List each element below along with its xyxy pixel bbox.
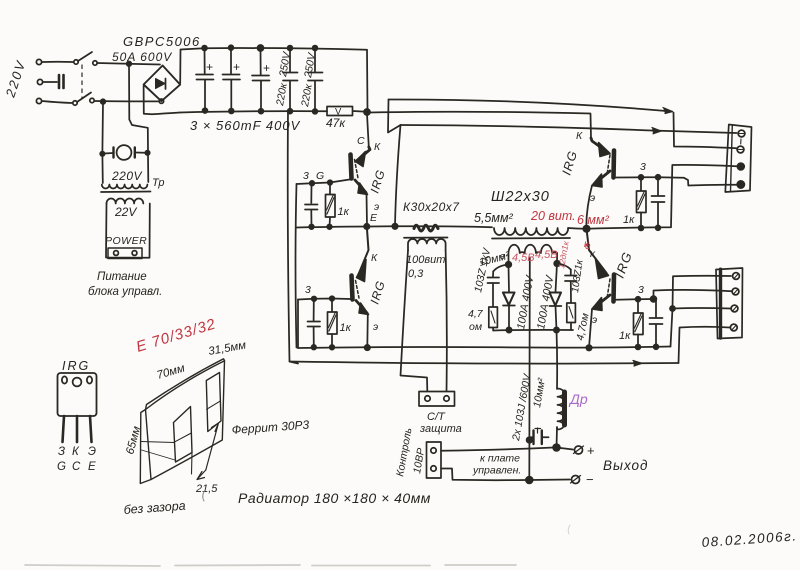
wire center tap to minus node bbox=[528, 444, 530, 481]
node top c2 bbox=[229, 45, 234, 50]
node rail347 res4 bbox=[636, 345, 641, 350]
svg-text:220к: 220к bbox=[299, 82, 315, 108]
svg-text:э: э bbox=[373, 321, 378, 333]
connector ST box bbox=[419, 392, 455, 407]
core 3D body bbox=[146, 361, 225, 480]
connector J2 bbox=[716, 268, 743, 339]
transistor Q3 bbox=[358, 227, 369, 276]
CT secondary 100 vit bbox=[408, 239, 446, 251]
node fuse right bbox=[145, 151, 149, 155]
wire Q4 gate to J2 pin2 bbox=[654, 290, 733, 299]
node AC bottom bbox=[101, 99, 106, 104]
capacitor output 2x103J bbox=[529, 431, 533, 444]
dim arrow 21,5 bbox=[206, 423, 219, 470]
svg-text:управлен.: управлен. bbox=[472, 465, 521, 477]
scan mark squiggle b bbox=[568, 525, 570, 534]
switch S1a bbox=[74, 60, 78, 64]
svg-text:103Z1к: 103Z1к bbox=[570, 258, 586, 294]
node rail347 b bbox=[330, 345, 335, 350]
svg-text:+: + bbox=[263, 61, 270, 75]
svg-text:3: 3 bbox=[303, 170, 309, 182]
terminal input mid bbox=[37, 79, 42, 84]
svg-text:3: 3 bbox=[640, 161, 646, 173]
wire rail 347 bbox=[298, 347, 671, 349]
wire CT lead right bbox=[446, 251, 447, 392]
svg-text:Ш22х30: Ш22х30 bbox=[491, 189, 550, 205]
wire switch to bridge AC bottom bbox=[95, 100, 158, 102]
node sec right bbox=[554, 261, 560, 267]
wire Q2 gate bbox=[616, 177, 737, 185]
node DC plus 47k bbox=[364, 109, 370, 115]
node rail347 a bbox=[312, 345, 317, 350]
svg-text:−: − bbox=[586, 472, 594, 487]
svg-text:э: э bbox=[590, 192, 595, 204]
wire inductor to plus node bbox=[556, 427, 559, 448]
svg-text:З: З bbox=[58, 446, 65, 458]
resistor Q3 1k bbox=[331, 300, 333, 312]
wire aux feed down from AC top bbox=[129, 64, 148, 151]
capacitor C5 film bbox=[314, 50, 316, 72]
capacitor C2 electrolytic bbox=[230, 50, 232, 74]
wire snubber right top bbox=[557, 264, 571, 270]
node top c3 bbox=[258, 45, 264, 51]
node bottom c1 bbox=[203, 108, 208, 113]
transformer primary Sh22x30 bbox=[494, 228, 568, 235]
svg-text:4,5В: 4,5В bbox=[535, 249, 558, 261]
wire aux feed from AC bottom bbox=[101, 102, 104, 152]
node Q3 gate a bbox=[312, 297, 317, 302]
node bottom c5 bbox=[313, 109, 318, 114]
svg-text:К: К bbox=[371, 252, 378, 264]
node rail347 Q3e bbox=[365, 345, 370, 350]
svg-text:1к: 1к bbox=[623, 214, 635, 226]
pin J1-4 bbox=[737, 181, 744, 188]
svg-text:Е 70/33/32: Е 70/33/32 bbox=[134, 315, 218, 355]
capacitor C4 film bbox=[289, 50, 291, 72]
node Q1 gate b bbox=[328, 180, 333, 185]
node top c5 bbox=[313, 46, 318, 51]
svg-text:G: G bbox=[316, 170, 324, 182]
wire plus node to terminal bbox=[557, 448, 574, 450]
svg-text:Др: Др bbox=[568, 391, 588, 407]
svg-text:Э: Э bbox=[88, 446, 96, 458]
transistor Q4 bbox=[587, 229, 607, 273]
node plus bbox=[553, 444, 560, 451]
node Q4 gate a bbox=[636, 297, 641, 302]
svg-text:22V: 22V bbox=[114, 205, 137, 219]
wire emitter rail to J2 pins 1 3 bbox=[671, 276, 732, 347]
svg-text:К: К bbox=[374, 141, 381, 153]
node sec left bbox=[506, 262, 512, 268]
wire kontrol pin1 to plus bbox=[441, 448, 554, 451]
svg-text:3: 3 bbox=[638, 284, 644, 296]
svg-text:220к: 220к bbox=[274, 81, 290, 107]
node cap tap bbox=[527, 437, 533, 443]
fuse lamp bbox=[117, 145, 132, 160]
svg-text:47к: 47к bbox=[326, 116, 346, 130]
svg-text:C: C bbox=[357, 135, 365, 147]
wire input mid stub bbox=[43, 81, 57, 83]
capacitor snub left bbox=[492, 272, 494, 277]
node e-rail cap bbox=[656, 225, 661, 230]
svg-text:E: E bbox=[88, 461, 96, 473]
svg-text:1к: 1к bbox=[338, 206, 350, 218]
wire CT lead left bbox=[401, 251, 428, 392]
resistor snub right 4,7om bbox=[567, 303, 576, 323]
node top c4 bbox=[288, 46, 293, 51]
capacitor Q1 gate bbox=[310, 185, 312, 203]
node e-rail res bbox=[639, 226, 644, 231]
wire neg bus vertical A bbox=[288, 111, 298, 364]
transistor Q2 bbox=[591, 138, 608, 153]
wire minus node to terminal bbox=[529, 479, 570, 482]
svg-text:POWER: POWER bbox=[105, 235, 147, 247]
terminal minus bbox=[572, 476, 580, 484]
svg-text:Тр: Тр bbox=[152, 177, 164, 189]
inductor Dr bbox=[557, 389, 564, 430]
capacitor suppression bbox=[58, 75, 61, 88]
capacitor C3 electrolytic bbox=[260, 50, 262, 75]
svg-text:C: C bbox=[72, 461, 81, 473]
svg-text:10мм²: 10мм² bbox=[531, 377, 548, 409]
svg-text:4,5В: 4,5В bbox=[512, 252, 535, 264]
svg-text:20 вит.: 20 вит. bbox=[530, 209, 576, 223]
resistor snub left 4,7om bbox=[489, 307, 498, 328]
wire kontrol pin2 to minus bbox=[441, 469, 526, 481]
svg-text:0,3: 0,3 bbox=[408, 268, 424, 280]
wire plus vertical to Q1 bbox=[367, 50, 369, 147]
svg-text:250V: 250V bbox=[277, 50, 293, 78]
terminal input N bbox=[36, 98, 41, 103]
node rail227 cap bbox=[309, 225, 314, 230]
svg-text:К: К bbox=[576, 130, 583, 142]
transistor Q1 bbox=[357, 147, 370, 161]
svg-text:4,7: 4,7 bbox=[468, 308, 484, 320]
node fuse left bbox=[100, 152, 104, 156]
wire rail363 to J2 pin4 bbox=[679, 327, 730, 363]
svg-text:220V: 220V bbox=[111, 169, 143, 183]
wire mid vertical to rail227 bbox=[395, 125, 401, 226]
svg-text:без зазора: без зазора bbox=[123, 499, 186, 517]
wire Q1 gate bbox=[297, 180, 350, 185]
wire input L to switch bbox=[42, 61, 73, 63]
svg-text:100А 400V: 100А 400V bbox=[515, 273, 537, 330]
wire rail1 top bbox=[389, 99, 673, 111]
svg-text:70мм: 70мм bbox=[156, 362, 187, 381]
core window left bbox=[174, 407, 193, 463]
CT core bbox=[404, 237, 448, 239]
svg-text:С/Т: С/Т bbox=[427, 411, 446, 423]
svg-text:5,5мм²: 5,5мм² bbox=[474, 211, 514, 225]
main core bbox=[492, 237, 570, 240]
node Q1 gate a bbox=[310, 181, 315, 186]
svg-text:блока управл.: блока управл. bbox=[88, 286, 162, 298]
svg-text:защита: защита bbox=[419, 423, 462, 435]
wire Q3 gate left drop bbox=[297, 300, 299, 349]
wire rail 363 bbox=[290, 362, 679, 364]
node D2 cathode bbox=[554, 327, 559, 332]
node bottom c4 bbox=[288, 109, 293, 114]
capacitor Q3 gate bbox=[313, 301, 315, 321]
wire vertical B bbox=[296, 184, 297, 348]
terminal input L bbox=[36, 59, 41, 64]
node Q3 gate b bbox=[330, 296, 335, 301]
pin J2-2 bbox=[732, 288, 739, 295]
wire rail2 bbox=[369, 112, 591, 138]
svg-text:IRG: IRG bbox=[367, 279, 388, 306]
svg-text:+: + bbox=[587, 443, 595, 458]
capacitor Q2 gate bbox=[657, 179, 659, 196]
wire cathode rail bbox=[493, 329, 573, 332]
svg-text:к плате: к плате bbox=[480, 453, 520, 465]
svg-text:Выход: Выход bbox=[603, 458, 649, 473]
node J2 vert bbox=[670, 306, 675, 311]
pin J2-3 bbox=[731, 305, 738, 312]
node bottom c2 bbox=[229, 109, 234, 114]
node rail227 vert bbox=[392, 224, 397, 229]
resistor Q1 1k bbox=[329, 184, 331, 194]
switch S1b bbox=[73, 101, 77, 105]
gang dashed link bbox=[81, 65, 83, 98]
scan edge bottom bbox=[25, 565, 516, 566]
node rail227 Q1e bbox=[364, 224, 369, 229]
connector J1 bbox=[725, 125, 751, 193]
node top c1 bbox=[202, 46, 207, 51]
wire rail1 drop bbox=[388, 100, 401, 133]
wire snubber left top bbox=[493, 265, 508, 272]
svg-text:Феррит 30Р3: Феррит 30Р3 bbox=[231, 418, 310, 437]
svg-text:GBPC5006: GBPC5006 bbox=[123, 34, 201, 49]
connector kontrol box bbox=[427, 442, 442, 478]
svg-text:IRG: IRG bbox=[559, 149, 580, 177]
svg-text:21,5: 21,5 bbox=[195, 483, 218, 495]
svg-text:Радиатор 180 ×180 × 40мм: Радиатор 180 ×180 × 40мм bbox=[238, 490, 431, 506]
node bottom c3 bbox=[259, 109, 264, 114]
node Q2 gate b bbox=[656, 175, 661, 180]
svg-text:08.02.2006г.: 08.02.2006г. bbox=[701, 528, 798, 550]
node rail227 res bbox=[327, 225, 332, 230]
wire Q3 gate bbox=[298, 299, 351, 300]
svg-text:6 мм²: 6 мм² bbox=[577, 213, 610, 227]
svg-text:220V: 220V bbox=[2, 58, 28, 100]
IRG legs bbox=[63, 416, 65, 442]
pin J1-2 bbox=[737, 146, 744, 153]
transformer core bbox=[101, 191, 151, 194]
svg-text:IRG: IRG bbox=[367, 168, 388, 195]
toroid K30x20x7 bbox=[414, 225, 438, 231]
svg-text:50A 600V: 50A 600V bbox=[112, 50, 172, 64]
svg-text:250V: 250V bbox=[302, 51, 318, 79]
svg-text:Питание: Питание bbox=[97, 271, 147, 283]
svg-text:1к: 1к bbox=[619, 330, 631, 342]
capacitor snub right bbox=[570, 270, 572, 275]
svg-text:G: G bbox=[57, 461, 66, 473]
wire emitter rail right bbox=[587, 165, 737, 229]
wire minus bus bbox=[180, 111, 327, 112]
wire rail 227 bbox=[297, 226, 493, 227]
node minus bbox=[526, 477, 533, 484]
node rail347 cap4 bbox=[654, 344, 659, 349]
resistor 47k bleeder bbox=[327, 107, 353, 116]
svg-text:IRG: IRG bbox=[62, 359, 90, 373]
svg-text:31,5мм: 31,5мм bbox=[207, 339, 247, 357]
secondary center tap bbox=[529, 258, 531, 264]
scan mark squiggle a bbox=[203, 490, 205, 501]
svg-text:10ВР: 10ВР bbox=[411, 447, 427, 474]
svg-text:12дп1к: 12дп1к bbox=[556, 239, 571, 269]
core sketch lines bbox=[141, 442, 175, 461]
capacitor Q4 gate bbox=[655, 301, 657, 318]
svg-text:100вит: 100вит bbox=[406, 254, 445, 266]
wire Q4 gate bbox=[616, 298, 654, 301]
node AC top bbox=[127, 62, 132, 67]
svg-text:+: + bbox=[233, 60, 240, 74]
pin J2-4 bbox=[730, 324, 737, 331]
wire bridge plus up bbox=[180, 48, 204, 83]
node Q2 gate a bbox=[639, 175, 644, 180]
wire center tap down bbox=[528, 264, 530, 431]
pin J1-3 bbox=[737, 163, 744, 170]
svg-text:е: е bbox=[500, 251, 505, 261]
connector power bbox=[108, 248, 142, 259]
transformer secondary bbox=[509, 245, 558, 264]
capacitor C1 electrolytic bbox=[204, 50, 206, 74]
node D1 cathode bbox=[506, 327, 511, 332]
node Q4 gate b bbox=[651, 296, 657, 302]
svg-text:К: К bbox=[72, 446, 80, 458]
svg-text:3 × 560mF 400V: 3 × 560mF 400V bbox=[190, 118, 301, 133]
node midpoint right bbox=[583, 226, 589, 232]
wire top bus bbox=[204, 48, 367, 50]
svg-text:IRG: IRG bbox=[612, 249, 636, 280]
svg-text:E: E bbox=[370, 212, 378, 224]
svg-text:К30х20х7: К30х20х7 bbox=[403, 200, 460, 214]
wire switch to bridge AC top bbox=[97, 63, 160, 65]
svg-text:1к: 1к bbox=[340, 322, 352, 334]
terminal plus bbox=[575, 446, 583, 454]
transformer 22V secondary bbox=[107, 199, 144, 204]
svg-text:ом: ом bbox=[469, 321, 482, 333]
diode D1 bbox=[508, 267, 511, 292]
resistor Q4 1k bbox=[637, 301, 639, 313]
svg-text:э: э bbox=[592, 314, 597, 326]
bridge rectifier GBPC5006 bbox=[144, 66, 181, 102]
svg-text:3: 3 bbox=[305, 284, 311, 296]
diode D2 bbox=[556, 264, 558, 292]
transformer Tr primary coil bbox=[101, 155, 103, 183]
wire bridge minus down bbox=[144, 86, 180, 114]
pin J1-1 bbox=[738, 130, 745, 137]
svg-text:+: + bbox=[206, 60, 213, 74]
node rail347 Q4e bbox=[586, 345, 591, 350]
resistor Q2 1k bbox=[640, 179, 642, 191]
wire D2 node down to inductor bbox=[556, 330, 559, 389]
wire input N to switch bbox=[42, 101, 72, 103]
core window right bbox=[206, 373, 221, 432]
wire rail3 bbox=[401, 125, 737, 133]
pin J2-1 bbox=[733, 273, 740, 280]
